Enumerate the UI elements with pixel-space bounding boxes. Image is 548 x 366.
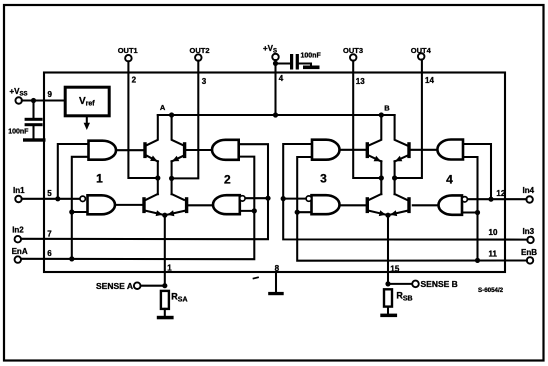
transistor Q8 emitter [390,211,408,215]
Vref arrow down [86,116,88,125]
bubble gate3 lower input [306,196,311,201]
node A junction [169,112,174,117]
transistor Q8 bar [407,199,410,212]
svg-text:RSB: RSB [396,290,412,302]
svg-text:14: 14 [425,76,434,85]
node sense B junction [385,213,390,218]
junction sense B [385,281,390,286]
junction In4 [488,197,493,202]
svg-text:1: 1 [167,263,172,272]
transistor Q6 emitter [395,155,408,161]
wire gate1 lower output [115,204,143,206]
bubble gate4 lower input [462,197,467,202]
transistor Q7 emitter arrow [379,210,386,216]
junction OUT4 column [392,175,397,180]
pin +Vs terminal [272,54,279,61]
wire In2 to gate2 bubble [245,197,268,199]
svg-text:SENSE A: SENSE A [96,281,133,291]
junction In1 [55,196,60,201]
svg-text:In2: In2 [12,226,24,235]
ground bar pin 8 [268,292,284,295]
svg-text:100nF: 100nF [301,53,322,60]
wire +Vs vertical [274,60,276,115]
svg-text:4: 4 [446,172,453,186]
capacitor 100nF plate left [290,54,293,70]
wire EnB to gate3 lower [297,211,311,213]
junction OUT1 column [155,175,160,180]
svg-text:B: B [384,103,390,112]
svg-text:S-6054/2: S-6054/2 [478,287,504,294]
wire In4 up to gate4 [463,144,491,199]
ground bar left [23,138,46,141]
transistor Q2 emitter [172,155,185,161]
wire to SENSE B pin [388,283,412,285]
junction EnB gate4 lower [475,210,480,215]
svg-text:+VSS: +VSS [10,87,28,98]
wire RSA to ground [164,309,166,316]
ground bar top right [303,66,320,70]
pin OUT1 terminal [125,55,132,62]
wire to SENSE A pin [140,285,164,287]
svg-text:2: 2 [132,76,137,85]
AND gate 1 upper [89,141,116,160]
pin OUT4 terminal [418,53,425,60]
svg-text:15: 15 [390,265,399,274]
wire gate4 upper output [411,149,438,151]
transistor Q1 emitter [146,155,158,161]
junction +Vs on rail [273,112,278,117]
transistor Q5 emitter [368,155,381,161]
transistor Q4 bar [185,199,188,212]
wire EnA up to gate1 [72,157,89,259]
wire bridge B left column [380,161,382,194]
pin SENSE A terminal [134,282,141,289]
wire OUT4 vertical [395,60,422,178]
node B junction [379,112,384,117]
wire gate2 lower output [189,204,213,206]
stray mark [254,277,259,278]
wire cap to ground left [32,126,34,138]
wire +Vss to Vref [22,99,65,101]
transistor Q1 emitter arrow [150,156,157,162]
wire bridge B right column [394,161,396,194]
svg-text:100nF: 100nF [8,129,29,136]
wire gate1 upper output [116,149,144,151]
wire EnA to gate2 lower [240,210,255,212]
transistor Q1 bar [143,144,146,157]
transistor Q7 bar [366,199,369,212]
wire +Vs rail [158,114,395,116]
wire In3 line [283,144,527,240]
AND gate 1 lower [88,195,116,214]
wire cap to ground [299,64,311,66]
wire gate3 lower output [340,204,366,206]
wire gate3 upper output [340,149,366,151]
transistor Q5 bar [366,144,369,157]
svg-text:EnA: EnA [12,247,28,256]
wire column to Q3 [146,194,158,200]
wire column to Q7 [369,194,381,200]
pin In1 terminal [15,196,22,203]
junction OUT3 column [379,175,384,180]
resistor RSA [161,291,169,309]
ground bar sense B [380,314,397,318]
resistor RSB [384,289,392,306]
bubble gate2 lower input [240,196,245,201]
junction EnA gate2 lower [252,208,257,213]
junction EnA branch [69,256,74,261]
svg-text:RSA: RSA [171,292,187,304]
wire left output column [157,161,159,194]
AND gate 3 upper [312,140,340,160]
wire bridge B right top [395,115,408,146]
transistor Q6 emitter arrow [395,156,402,162]
wire OUT3 vertical [353,61,381,178]
svg-text:10: 10 [489,228,498,237]
junction sense A [162,283,167,288]
svg-text:3: 3 [202,77,207,86]
wire In1 [22,198,80,200]
pin SENSE B terminal [412,281,419,288]
transistor Q5 emitter arrow [374,156,381,162]
node sense A junction [162,213,167,218]
transistor Q4 emitter arrow [167,210,174,216]
svg-text:2: 2 [224,172,231,186]
junction In2 bubble branch [265,196,270,201]
AND gate 4 lower [439,195,462,214]
capacitor 100nF left plate bottom [25,123,43,126]
AND gate 2 lower [213,195,240,214]
pin EnA terminal [15,256,22,263]
wire EnB line [297,157,527,261]
wire OUT1 vertical [128,61,157,178]
pin OUT2 terminal [195,54,202,61]
pin EnB terminal [527,257,534,264]
junction EnB branch [475,258,480,263]
wire EnA line [22,157,255,260]
pin In3 terminal [527,237,534,244]
pin OUT3 terminal [350,54,357,61]
wire In2 line [22,144,268,239]
capacitor 100nF plate right [296,54,299,70]
junction In3 bubble branch [281,196,286,201]
wire In1 up to gate1 [58,144,89,199]
wire bridge B left top [368,115,381,146]
svg-text:12: 12 [496,189,505,198]
transistor Q8 emitter arrow [390,210,397,216]
svg-text:In1: In1 [13,186,25,195]
junction OUT2 column [169,176,174,181]
svg-text:OUT1: OUT1 [118,46,138,55]
wire gate2 upper output [187,149,212,151]
junction +Vs cap branch [273,61,278,66]
pin In4 terminal [526,196,533,203]
svg-text:4: 4 [279,74,284,83]
wire sense A vertical [164,215,166,286]
transistor Q3 emitter [145,211,163,215]
wire In4 [467,198,526,200]
wire RSB to ground [387,307,389,314]
wire right output column [171,161,173,194]
svg-text:5: 5 [47,189,52,198]
junction EnA gate1 lower [69,209,74,214]
transistor Q6 bar [407,144,410,157]
IC block boundary box [44,73,505,273]
wire EnB to gate4 lower [462,211,478,213]
AND gate 3 lower [312,195,340,214]
svg-text:7: 7 [47,229,52,238]
junction Vss cap [31,98,36,103]
wire column to Q4 [172,194,184,200]
transistor Q3 emitter arrow [156,210,163,216]
svg-text:6: 6 [47,249,52,258]
svg-text:1: 1 [96,171,103,185]
wire EnB up to gate4 [463,157,478,260]
wire EnA to gate1 lower [72,211,88,213]
wire OUT2 vertical [172,61,199,179]
wire In3 to gate3 bubble [283,198,306,200]
wire bridge A right top [172,115,184,146]
svg-text:SENSE B: SENSE B [421,279,458,289]
Vref box U1 [65,87,109,116]
svg-text:3: 3 [320,172,327,186]
pin +Vss terminal [15,97,22,104]
svg-text:In3: In3 [523,227,535,236]
transistor Q3 bar [142,199,145,212]
transistor Q2 bar [183,144,186,157]
AND gate 2 upper [212,140,239,160]
ground bar sense A [157,316,174,320]
junction EnB gate3 lower [295,210,300,215]
wire GND stem [275,272,277,292]
transistor Q2 emitter arrow [172,156,179,162]
svg-text:13: 13 [356,77,365,86]
AND gate 4 upper [437,140,463,160]
svg-text:EnB: EnB [521,248,537,257]
wire bridge A left top [146,115,158,146]
svg-text:In4: In4 [523,186,535,195]
wire Vss to cap [32,101,34,119]
svg-text:11: 11 [489,250,498,259]
transistor Q4 emitter [167,211,186,215]
wire gate4 lower output [413,204,439,206]
transistor Q7 emitter [369,211,387,215]
wire column to Q8 [395,194,407,200]
svg-text:9: 9 [48,90,53,99]
pin In2 terminal [15,236,22,243]
bubble gate1 lower input [80,196,85,201]
wire to 100nF cap [276,62,291,64]
capacitor 100nF left plate top [25,118,43,121]
Vref arrowhead [84,123,90,130]
svg-text:A: A [160,103,166,112]
wire sense B vertical [387,215,389,284]
